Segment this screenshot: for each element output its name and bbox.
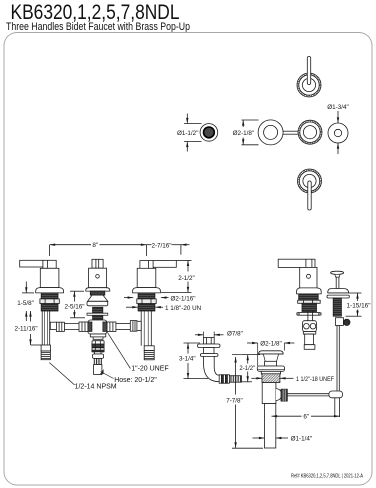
cross tee body — [88, 320, 107, 334]
hose threads 1-20 UNEF — [94, 358, 101, 364]
flange neck — [261, 371, 280, 374]
svg-text:2-11/16": 2-11/16" — [14, 326, 37, 333]
dark gasket ring — [90, 291, 105, 295]
clevis connector — [329, 391, 343, 398]
dimension 2-5/16 — [70, 290, 84, 292]
thread label 1 1/8-20 UN — [126, 306, 138, 308]
dimension Ø2-1/16 — [124, 297, 133, 299]
dimension Ø2-1/8 drain — [247, 342, 258, 344]
svg-text:8": 8" — [92, 242, 98, 249]
dimension Ø1-1/2 spout — [184, 123, 202, 125]
svg-text:2-7/16": 2-7/16" — [151, 242, 171, 249]
svg-text:1 1/2"-18 UNEF: 1 1/2"-18 UNEF — [296, 377, 334, 383]
bottom cap plate — [90, 334, 106, 337]
right supply tube — [140, 311, 142, 346]
svg-text:2-1/2": 2-1/2" — [239, 366, 255, 372]
svg-text:Ø2-1/8": Ø2-1/8" — [233, 130, 255, 137]
svg-text:Ø1-1/2": Ø1-1/2" — [177, 130, 199, 137]
thread label 1 1/2-18 UNEF — [251, 377, 262, 379]
dimension 8 inch — [50, 244, 91, 246]
escutcheon flange — [133, 288, 161, 293]
svg-text:Ø7/8": Ø7/8" — [227, 330, 243, 337]
svg-text:3-1/4": 3-1/4" — [179, 356, 196, 363]
left compression fitting — [50, 322, 56, 329]
elbow compression nut — [219, 375, 229, 383]
strap below — [334, 398, 336, 417]
dimension 2-11/16 — [30, 311, 32, 322]
spout outlet (top view) — [200, 124, 218, 142]
lift rod lower — [336, 325, 338, 391]
cone skirt — [88, 295, 108, 301]
dimension 6 inch — [272, 415, 302, 417]
lift rod flange disc — [328, 289, 349, 293]
side valve stop ring — [298, 313, 320, 316]
supply pipe left segment — [56, 322, 79, 324]
dimension Ø2-1/8 — [242, 119, 259, 121]
svg-text:1-5/8": 1-5/8" — [17, 300, 34, 307]
svg-text:Ø1-1/4": Ø1-1/4" — [291, 436, 313, 443]
threaded shank — [41, 293, 58, 311]
left supply threaded adapter 1/2-14 NPSM — [41, 345, 50, 351]
left supply tube — [41, 311, 43, 345]
valve body — [40, 268, 59, 287]
leader + label Hose 20-1/2 — [101, 372, 114, 379]
handle base circle Ø1-3/4 — [328, 123, 348, 143]
hose hex nut 1 — [92, 341, 104, 348]
svg-text:Three Handles Bidet Faucet wit: Three Handles Bidet Faucet with Brass Po… — [6, 21, 190, 33]
threaded shank — [138, 293, 155, 311]
svg-text:2-1/2": 2-1/2" — [178, 275, 195, 282]
side valve pivot housing — [303, 321, 317, 332]
center-right hex nut — [107, 322, 116, 331]
svg-text:Ø2-1/16": Ø2-1/16" — [171, 295, 196, 302]
pop-up valve side view lever — [278, 259, 315, 267]
leader + label 1-20 UNEF — [107, 332, 130, 368]
valve body — [137, 268, 156, 287]
svg-text:Hose: 20-1/2": Hose: 20-1/2" — [114, 377, 157, 384]
hose hex nut 2 — [92, 348, 104, 352]
svg-text:2-5/16": 2-5/16" — [64, 303, 84, 310]
pivot port bulge — [276, 389, 282, 401]
dimension 2-7/16 — [146, 244, 151, 246]
side valve bottom tube — [305, 334, 314, 345]
handle (top view, upper) — [297, 73, 321, 97]
clevis screw — [335, 318, 343, 326]
center spout top prongs — [92, 259, 103, 268]
elbow flange disc — [198, 344, 221, 348]
lift rod disc 2 — [327, 295, 349, 298]
svg-text:1"-20 UNEF: 1"-20 UNEF — [131, 366, 169, 373]
svg-text:1 1/8"-20 UN: 1 1/8"-20 UN — [165, 305, 202, 312]
svg-text:6": 6" — [303, 414, 309, 421]
dimension 1-5/8 — [22, 292, 34, 294]
connecting stem (top view) — [283, 130, 298, 132]
dimension 3-1/4 — [184, 342, 201, 344]
center-left hex nut — [79, 322, 88, 331]
elbow top tube — [204, 338, 215, 345]
lift rod spring — [333, 298, 341, 316]
handle (top view, lower) — [298, 169, 322, 193]
svg-text:1/2-14 NPSM: 1/2-14 NPSM — [75, 383, 117, 390]
drain flange — [257, 366, 284, 371]
lever handle — [20, 260, 43, 267]
hose tube — [94, 365, 102, 375]
dimension Ø1-1/4 — [253, 437, 265, 439]
side valve threads upper — [299, 294, 319, 300]
pivot rod — [288, 393, 329, 395]
drain threads 1 1/2-18 UNEF — [262, 374, 280, 383]
side valve bracket — [303, 332, 316, 335]
hose coupler — [93, 354, 104, 358]
elbow disc 2 — [200, 354, 218, 357]
dimension 1-15/16 — [349, 292, 362, 294]
svg-text:Ref# KB6320,1,2,5,7,8NDL | 202: Ref# KB6320,1,2,5,7,8NDL | 2021-12-A — [291, 473, 363, 479]
side valve stem — [307, 312, 309, 322]
elbow neck — [204, 348, 215, 354]
mounting washer — [87, 313, 108, 315]
valve cap (top view) — [298, 120, 322, 144]
side valve threads lower — [302, 303, 317, 311]
svg-text:Ø1-3/4": Ø1-3/4" — [327, 104, 349, 111]
plug stem — [263, 354, 278, 361]
side valve escutcheon — [297, 288, 322, 294]
leader + label 1/2-14 NPSM — [49, 363, 74, 386]
center spout body — [89, 268, 107, 288]
svg-text:1-15/16": 1-15/16" — [347, 303, 371, 309]
right compression fitting — [130, 321, 137, 332]
svg-text:Ø2-1/8": Ø2-1/8" — [260, 341, 282, 348]
pivot retaining nut — [281, 389, 287, 401]
side valve washer nut — [298, 300, 321, 303]
svg-text:7-7/8": 7-7/8" — [226, 397, 243, 404]
escutcheon (top view) Ø2-1/8 — [258, 120, 283, 145]
lever handle — [153, 261, 176, 268]
tailpiece — [265, 404, 276, 449]
pop-up plug cap — [259, 351, 284, 354]
locknut — [137, 299, 156, 304]
center escutcheon flange — [86, 288, 110, 291]
lift rod knob — [331, 271, 344, 274]
locknut — [40, 299, 59, 304]
right supply threaded adapter — [144, 346, 154, 351]
center threaded shank — [93, 307, 103, 319]
elbow threaded tip — [229, 376, 241, 383]
dimension Ø7/8 — [195, 334, 204, 336]
escutcheon flange — [36, 288, 64, 293]
side valve body — [300, 267, 317, 288]
dimension 2-1/2 drain — [242, 354, 260, 356]
dimension 2-1/2 right valve — [177, 259, 192, 261]
drain body — [262, 383, 276, 404]
supply pipe right segment — [116, 322, 130, 324]
lift rod upper — [335, 277, 337, 289]
skirt base disc — [87, 301, 108, 306]
elbow body curve — [204, 356, 220, 381]
dimension 7-7/8 — [232, 354, 242, 356]
